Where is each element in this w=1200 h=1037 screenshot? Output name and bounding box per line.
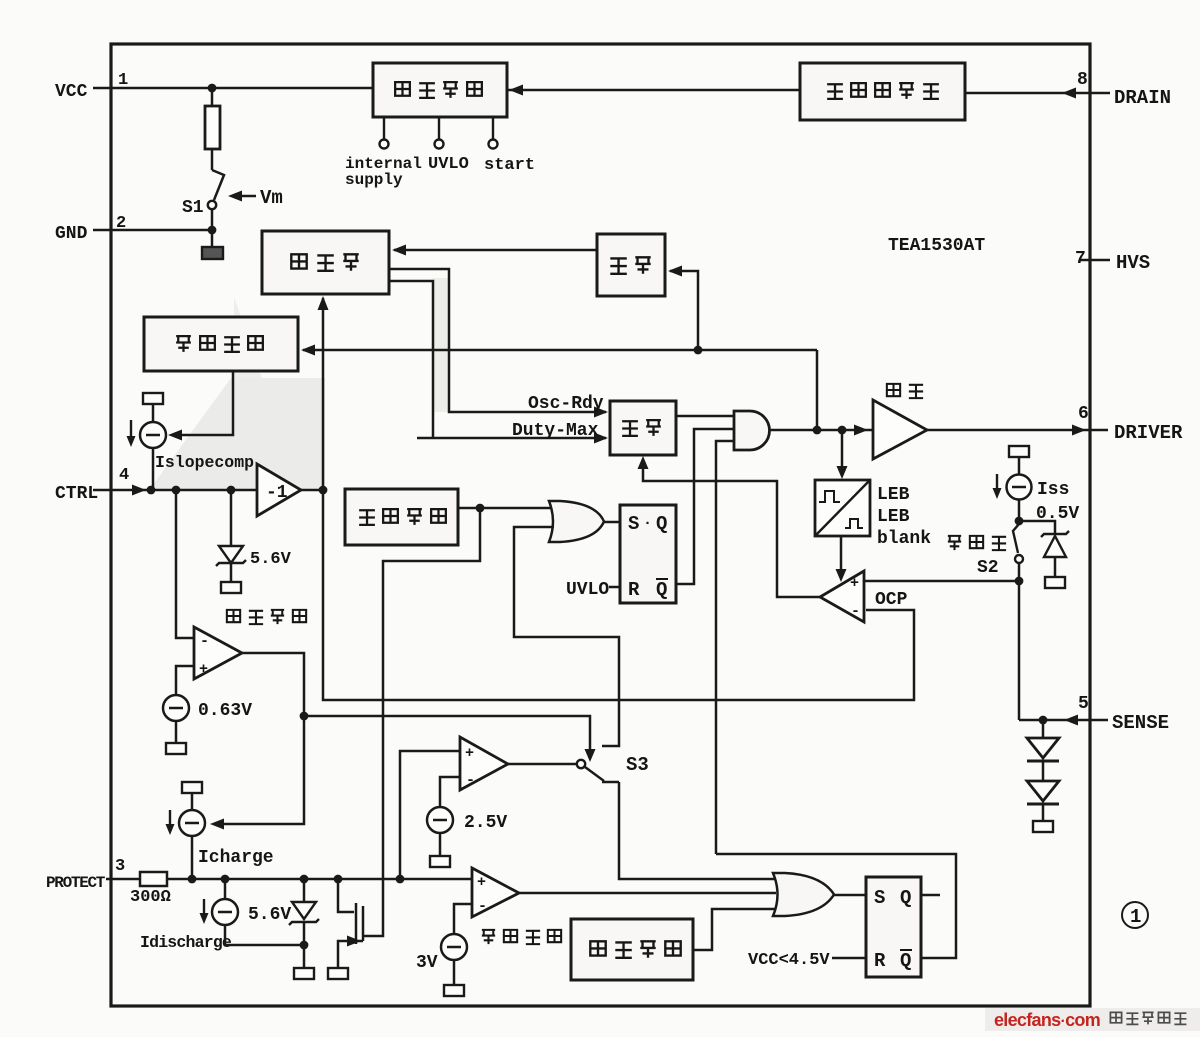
svg-text:Iss: Iss xyxy=(1037,480,1069,500)
svg-text:S3: S3 xyxy=(626,754,649,776)
zener diode 0.5V clamp xyxy=(1019,521,1055,534)
svg-text:Islopecomp: Islopecomp xyxy=(155,453,254,472)
wire FF2 Qbar feedback xyxy=(716,854,956,958)
wire feedback up from AND out xyxy=(816,350,819,430)
wire FF1 Qbar to AND xyxy=(676,429,734,584)
svg-text:7: 7 xyxy=(1075,249,1086,269)
comparator OCP xyxy=(820,571,864,622)
current source Idischarge xyxy=(224,879,227,899)
wire OR1 output xyxy=(604,521,620,524)
diode D1 xyxy=(1042,720,1045,738)
svg-text:DRAIN: DRAIN xyxy=(1114,87,1171,109)
svg-text:R: R xyxy=(874,950,886,972)
svg-text:0.63V: 0.63V xyxy=(198,701,252,721)
current source Iss xyxy=(1009,446,1029,457)
svg-text:-: - xyxy=(478,898,487,915)
block slope compensation 斜率补偿 xyxy=(144,317,298,371)
watermark band xyxy=(985,1008,1200,1031)
svg-text:start: start xyxy=(484,156,535,175)
node VCC junction xyxy=(208,84,217,93)
current source Icharge xyxy=(182,782,202,793)
svg-text:4: 4 xyxy=(119,466,129,485)
svg-text:Q: Q xyxy=(656,579,667,601)
terminals under power mgmt xyxy=(383,117,385,139)
flip-flop FF2 xyxy=(866,877,921,977)
comparator control detect 控制检测 xyxy=(194,627,242,679)
wire GND xyxy=(93,229,212,232)
wire -1 output node xyxy=(301,489,325,492)
svg-text:DRIVER: DRIVER xyxy=(1114,422,1183,444)
wire driver to DRIVER pin xyxy=(927,429,1090,432)
svg-text:Idischarge: Idischarge xyxy=(140,933,232,952)
wire AND third input from protection net xyxy=(716,441,734,854)
svg-text:+: + xyxy=(850,575,859,592)
wire startup to power mgmt with arrow xyxy=(507,89,800,92)
svg-text:3: 3 xyxy=(115,857,125,876)
pin 8 DRAIN xyxy=(1090,92,1110,95)
svg-text:VCC: VCC xyxy=(55,82,88,102)
wire protect detect output to OR2 xyxy=(519,892,776,895)
svg-text:Q: Q xyxy=(900,887,911,909)
transistor M1 mosfet xyxy=(338,879,354,912)
svg-text:GND: GND xyxy=(55,224,88,244)
block oscillator 振荡器 xyxy=(262,231,389,294)
svg-text:8: 8 xyxy=(1077,70,1088,90)
wire OCP output to logic2 reset xyxy=(643,459,820,597)
svg-text:VCC<4.5V: VCC<4.5V xyxy=(748,951,830,970)
wire logic1 to oscillator xyxy=(394,249,597,252)
svg-text:LEB: LEB xyxy=(877,485,910,505)
flip-flop FF1 S.Q xyxy=(620,505,676,603)
svg-text:S1: S1 xyxy=(182,198,204,218)
pin 6 DRIVER xyxy=(1090,429,1108,432)
wire osc out upper to Osc-Rdy xyxy=(389,269,606,412)
svg-text:SENSE: SENSE xyxy=(1112,712,1169,734)
diode D2 xyxy=(1042,761,1045,781)
wire OR2 to FF2 xyxy=(834,894,866,897)
shading wash xyxy=(150,378,325,489)
node CTRL junctions xyxy=(147,486,156,495)
block logic2 逻辑 xyxy=(610,401,676,455)
wire feedback into logic1 xyxy=(670,271,698,350)
wire AND output to driver xyxy=(769,429,873,432)
svg-text:elecfans·com: elecfans·com xyxy=(994,1010,1100,1030)
svg-text:Q: Q xyxy=(656,513,667,535)
svg-text:-: - xyxy=(200,633,209,650)
wire CTRL line xyxy=(93,489,258,492)
wire slope compensation feedback xyxy=(303,349,817,352)
OR gate OR1 xyxy=(549,501,604,542)
svg-text:+: + xyxy=(199,661,208,678)
svg-text:Icharge: Icharge xyxy=(198,848,274,868)
source 3V xyxy=(454,904,472,934)
wire ctrl to - input xyxy=(176,490,194,638)
svg-text:UVLO: UVLO xyxy=(428,155,469,174)
svg-text:S2: S2 xyxy=(977,558,999,578)
IC outline box xyxy=(111,44,1090,1006)
svg-text:-1: -1 xyxy=(266,483,288,503)
svg-text:Osc-Rdy: Osc-Rdy xyxy=(528,394,604,414)
source 2.5V xyxy=(440,777,460,807)
switch S3 xyxy=(508,763,577,766)
svg-text:R: R xyxy=(628,579,640,601)
svg-text:·: · xyxy=(643,515,652,532)
switch S2 soft start 软启动 xyxy=(1018,499,1021,521)
wire to oscillator bottom xyxy=(322,298,325,490)
switch S1 xyxy=(211,149,214,170)
block startup current source 启动电流源 xyxy=(800,63,965,120)
svg-text:Duty-Max: Duty-Max xyxy=(512,421,599,441)
node AND out junctions xyxy=(813,426,822,435)
svg-text:Vm: Vm xyxy=(260,187,283,209)
node junction on slope line xyxy=(694,346,703,355)
svg-text:1: 1 xyxy=(1130,906,1141,928)
svg-text:+: + xyxy=(477,874,486,891)
resistor R1 xyxy=(211,88,214,106)
svg-text:-: - xyxy=(466,772,475,789)
svg-text:TEA1530AT: TEA1530AT xyxy=(888,236,985,256)
circled 1 mark xyxy=(1122,902,1148,928)
ground xyxy=(202,247,223,259)
wire OR1 second input xyxy=(514,527,619,746)
wire recovery loop to mosfet drain xyxy=(364,508,480,936)
wire control detect output xyxy=(214,653,304,824)
zener diode 5.6V on CTRL xyxy=(230,490,233,546)
wire VCC to power mgmt xyxy=(93,87,373,90)
wire + input from protect xyxy=(400,751,460,879)
wire control voltage down xyxy=(323,490,914,700)
wire OCP + input from soft start xyxy=(864,580,1019,583)
driver amp 驱动 xyxy=(873,400,927,459)
Vm control arrow xyxy=(240,195,256,198)
svg-text:5.6V: 5.6V xyxy=(250,550,292,569)
svg-text:LEB: LEB xyxy=(877,507,910,527)
svg-text:UVLO: UVLO xyxy=(566,580,609,600)
block logic1 逻辑 xyxy=(597,234,665,296)
svg-text:S: S xyxy=(628,513,639,535)
svg-text:-: - xyxy=(851,603,860,620)
svg-text:5: 5 xyxy=(1078,694,1089,714)
pin 5 SENSE xyxy=(1090,719,1108,722)
wire osc out lower to Duty-Max xyxy=(389,281,433,438)
svg-text:HVS: HVS xyxy=(1116,252,1150,274)
wire S3 to OR2 xyxy=(619,782,776,879)
svg-text:2.5V: 2.5V xyxy=(464,813,507,833)
wire S3 control xyxy=(304,716,590,757)
svg-text:Q: Q xyxy=(900,950,911,972)
wire down to LEB xyxy=(841,430,844,476)
OR gate OR2 xyxy=(773,873,834,916)
svg-text:PROTECT: PROTECT xyxy=(46,874,106,892)
comparator protect detect 保护检测 xyxy=(472,868,519,917)
resistor 300ohm xyxy=(106,878,140,881)
svg-text:6: 6 xyxy=(1078,404,1089,424)
svg-text:supply: supply xyxy=(345,171,403,189)
block thermal protection 过热保护 xyxy=(571,919,693,980)
svg-text:+: + xyxy=(465,745,474,762)
block power-on recovery 上电恢复 xyxy=(345,489,458,545)
comparator 2.5V xyxy=(460,737,508,790)
svg-text:CTRL: CTRL xyxy=(55,484,98,504)
wire recovery to OR1 xyxy=(458,507,552,510)
svg-text:3V: 3V xyxy=(416,953,438,973)
svg-text:300Ω: 300Ω xyxy=(130,888,171,907)
block U1 power management 电源管理 xyxy=(373,63,507,117)
wire FF2 Q stub xyxy=(921,894,940,897)
source 0.63V xyxy=(176,666,194,695)
wire logic2 to AND xyxy=(676,415,734,418)
current source Islopecomp xyxy=(143,393,163,404)
AND gate xyxy=(734,411,770,450)
svg-text:OCP: OCP xyxy=(875,590,908,610)
svg-text:5.6V: 5.6V xyxy=(248,905,291,925)
wire slope comp output to Islopecomp xyxy=(172,371,233,435)
zener diode 5.6V protect xyxy=(303,879,306,902)
block LEB xyxy=(815,480,870,536)
watermark 电子发烧友 xyxy=(1110,1012,1186,1024)
svg-text:blank: blank xyxy=(877,529,931,549)
wire DRAIN to startup xyxy=(965,92,1090,95)
wire thermal to OR2 xyxy=(693,909,776,950)
pin 7 HVS xyxy=(1080,259,1110,262)
wire PROTECT line xyxy=(167,878,472,881)
svg-text:S: S xyxy=(874,887,885,909)
wire LEB to OCP xyxy=(840,536,843,578)
amplifier -1 xyxy=(257,464,301,516)
